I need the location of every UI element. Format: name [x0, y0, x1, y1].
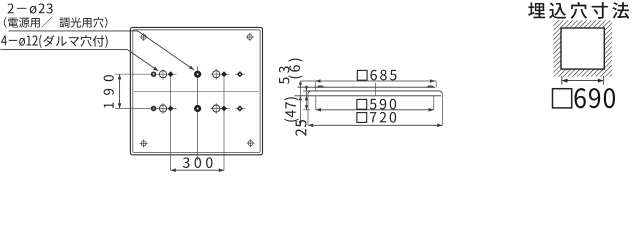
top row lone-hole tick [235, 73, 244, 75]
label □720 [357, 112, 396, 123]
leader line for 2-o23 label [9, 30, 138, 32]
side: flange outer edge right / 720 extension [441, 93, 443, 125]
horizontal centerline [134, 90, 259, 92]
side: flange top line with stub [304, 90, 441, 92]
side: 685 extension left [314, 82, 316, 91]
bottom row daruma hole left circle (o12) [159, 105, 166, 112]
190 dimension line [119, 74, 121, 108]
title 埋込穴寸法 [528, 2, 629, 19]
top row centerline right segment [210, 73, 229, 75]
label (47) (rotated) [284, 97, 298, 121]
corner screw 4 [248, 141, 253, 146]
top row center power hole (o23) [194, 71, 200, 77]
top row daruma hole right circle (o12) [213, 71, 220, 78]
hatch band around hole [553, 20, 612, 76]
side: flange outer edge left / 720 extension [307, 93, 309, 125]
top row centerline left segment [115, 73, 176, 75]
top row lone hole (diamond) [237, 71, 243, 77]
side: flange bottom line with stub [295, 95, 442, 97]
top row daruma slot left (diamond) [168, 71, 174, 77]
label (6) (rotated) [288, 59, 302, 79]
label 300 [183, 157, 213, 168]
label 2-o23 [8, 3, 53, 13]
side: panel right edge / 590 extension [433, 96, 435, 110]
side: 720 dimension line [308, 124, 442, 126]
label 190 (rotated) [104, 75, 114, 108]
top row small pilot hole [152, 72, 156, 76]
side: panel bottom stub for dim B [303, 109, 310, 111]
plan view outer square (fixture body) [130, 27, 262, 154]
label □590 [357, 99, 396, 110]
label 4-o12 (daruma ana tsuki) [1, 34, 42, 48]
bottom row daruma slot left (diamond) [168, 106, 174, 112]
300 dim extension line right [223, 77, 225, 170]
side: flange top stub for dim B [303, 90, 308, 92]
side: 685 dimension line [300, 80, 436, 82]
label 53 (rotated) [279, 66, 289, 84]
plan view inner square (panel frame) [133, 30, 260, 153]
top row daruma slot right (diamond) [221, 71, 227, 77]
corner screw 2 [247, 35, 252, 40]
label daruma ana tsuki (kana part) [43, 35, 107, 48]
bottom row lone-hole tick [235, 108, 244, 110]
bottom row centerline left segment [115, 108, 176, 110]
side: flange left chamfer [308, 91, 310, 93]
bottom row center power hole (o23) [194, 105, 200, 111]
side: right clip bump [427, 86, 433, 87]
300 dim extension line left (through daruma slots) [170, 77, 172, 170]
side: left clip bump [317, 86, 323, 87]
side: center mark [374, 83, 376, 96]
side: body top line [298, 86, 436, 88]
690 dim ticks and line [561, 76, 563, 85]
leader line for 4-o12 label [1, 49, 128, 51]
bottom row daruma slot right (diamond) [221, 106, 227, 112]
label (dengen-you / choukou-you ana) [4, 17, 108, 28]
300 dimension line [171, 169, 224, 171]
vertical centerline [197, 66, 199, 161]
bottom row small pilot hole [152, 107, 156, 111]
recessed hole square [561, 28, 604, 69]
bottom row lone hole (diamond) [237, 105, 243, 111]
bottom row centerline right segment [210, 108, 229, 110]
label □690 [553, 88, 616, 108]
bottom row daruma hole right circle (o12) [213, 105, 220, 112]
side: 685 extension right [435, 82, 437, 88]
label □685 [357, 70, 396, 81]
side: 590 dimension line (panel bottom) [316, 109, 434, 111]
corner screw 3 [141, 141, 146, 146]
top row daruma hole left circle (o12) [159, 71, 166, 78]
side: height dim line B (6/25) [305, 85, 307, 110]
side: height dim line A (53/47) [299, 81, 301, 125]
side: panel left edge / 590 extension [315, 96, 317, 110]
side: flange right chamfer [440, 91, 442, 93]
label 25 (rotated) [295, 120, 306, 136]
corner screw 1 [141, 35, 146, 40]
